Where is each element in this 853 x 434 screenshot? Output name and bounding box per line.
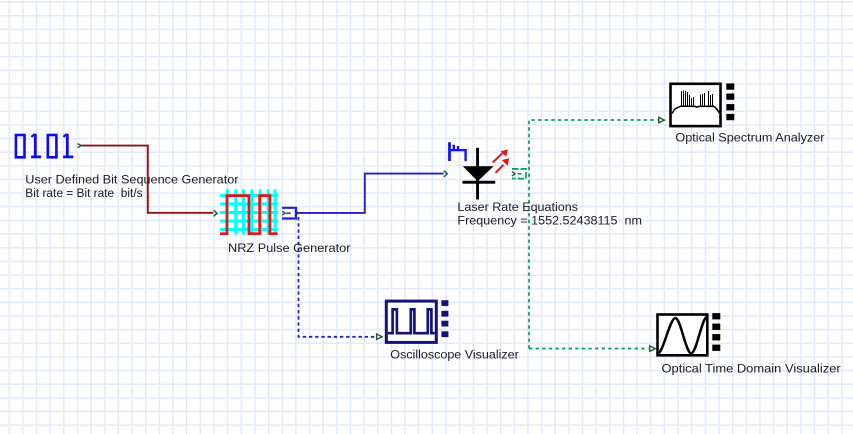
svg-text:NRZ Pulse Generator: NRZ Pulse Generator [228,241,351,255]
digit 1 [63,134,73,159]
port: oscilloscope input arrowhead [377,334,383,340]
port: laser input > [444,171,447,177]
port: OTDV input arrowhead [650,346,656,351]
svg-text:Optical Time Domain Visualizer: Optical Time Domain Visualizer [662,361,841,375]
spectrum hump [672,106,720,113]
cyan hatch vertical bars [227,189,275,234]
laser diode triangle [463,166,494,181]
svg-text:Oscilloscope Visualizer: Oscilloscope Visualizer [390,348,519,362]
digit 1 [31,134,41,159]
svg-text:Laser Rate Equations: Laser Rate Equations [457,200,578,214]
component U2 NRZ Pulse Generator icon [220,189,278,234]
wire W1 (electrical, bit sequence to NRZ) [82,146,214,213]
digit 0 [48,135,57,157]
U6 side squares [712,313,720,351]
component U3 Laser Rate Equations icon [448,142,509,199]
laser diode vertical line [476,148,479,200]
sine wave [659,317,707,354]
wire W3 (electrical dashed, NRZ to oscilloscope) [299,217,377,337]
red emission arrow 1 [493,153,503,162]
square wave [388,309,435,333]
svg-text:Frequency = 1552.52438115 nm: Frequency = 1552.52438115 nm [457,213,642,227]
red NRZ waveform [220,196,278,234]
laser diode cathode bar [462,181,495,184]
svg-text:User Defined Bit Sequence Gene: User Defined Bit Sequence Generator [25,173,238,187]
svg-text:Optical Spectrum Analyzer: Optical Spectrum Analyzer [675,131,824,145]
blue modulation glyph [448,142,451,161]
red emission arrow 2 [496,165,504,173]
U5 side squares [441,300,448,337]
component U5 Oscilloscope Visualizer icon [386,301,436,342]
spectrum spikes [682,90,713,107]
wire W5 (optical dashed, laser to Optical Time Domain Visualizer) [529,348,649,350]
port: laser output bracket (optical) [512,169,526,179]
port: NRZ input > [214,210,217,216]
component U1 User Defined Bit Sequence Generator icon (0101 digits) [16,134,73,159]
svg-text:Bit rate = Bit rate bit/s: Bit rate = Bit rate bit/s [25,186,142,200]
cyan hatch horizontal bars [220,196,278,230]
wire W2 (electrical, NRZ to laser) [299,174,444,213]
port: U1 output > [78,144,82,148]
port: OSA input arrowhead [659,117,665,122]
wire W4 (optical dashed, laser to Optical Spectrum Analyzer) [529,120,658,349]
U4 side squares [726,83,734,120]
component U6 Optical Time Domain Visualizer icon [658,315,708,356]
component U4 Optical Spectrum Analyzer icon [671,84,721,126]
digit 0 [16,135,25,157]
port: NRZ output bracket [282,208,299,219]
